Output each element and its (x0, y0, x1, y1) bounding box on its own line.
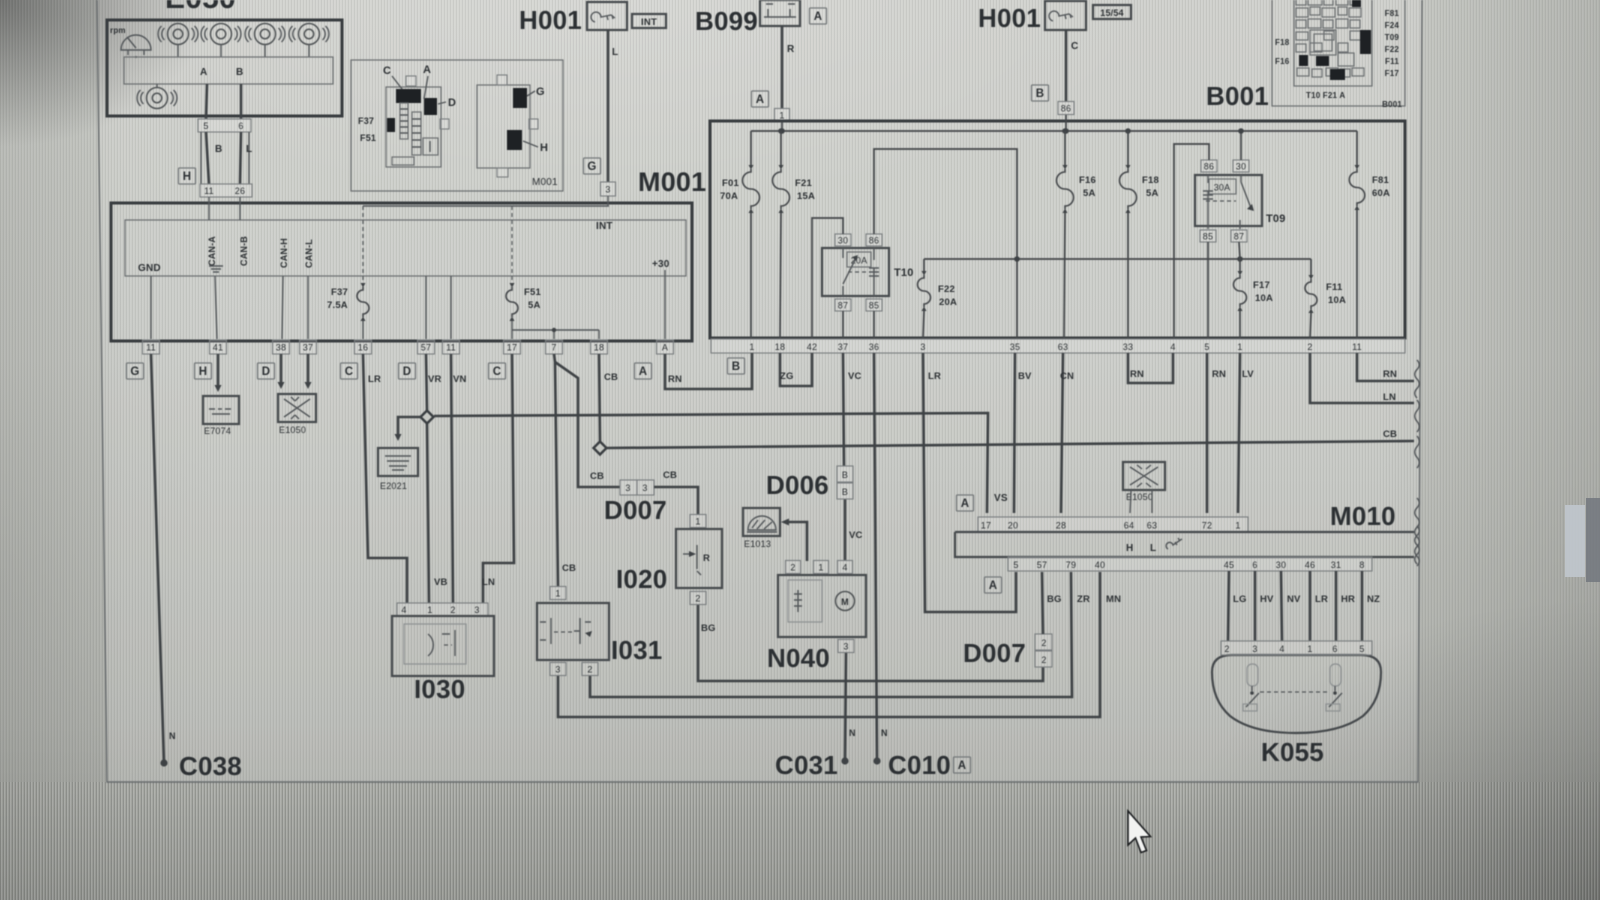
svg-text:26: 26 (235, 186, 245, 196)
switched supply rail (924, 258, 1311, 260)
inset left connector (386, 87, 441, 167)
M001 INT feed (363, 196, 609, 206)
wire CN (B001-63 to M010-28) (1061, 353, 1063, 513)
svg-text:87: 87 (838, 301, 848, 311)
relay T10 pin 85 (866, 299, 882, 311)
svg-text:CAN-A: CAN-A (207, 236, 217, 266)
wire LN (B001-2 to edge) (1310, 353, 1414, 403)
svg-text:RN: RN (1383, 369, 1397, 380)
sheet marker G (584, 158, 601, 174)
wire NV (M010 to K055) (1281, 571, 1282, 641)
svg-text:3: 3 (555, 665, 560, 675)
svg-text:CB: CB (604, 372, 618, 383)
sheet marker C under M001 (489, 363, 506, 379)
svg-text:79: 79 (1066, 560, 1076, 570)
svg-text:F01: F01 (722, 178, 739, 189)
svg-text:NZ: NZ (1367, 594, 1380, 605)
svg-text:3: 3 (843, 642, 848, 652)
E050 warning lamp icon 1 (158, 24, 198, 45)
svg-text:3: 3 (642, 483, 647, 493)
svg-text:37: 37 (838, 342, 848, 352)
svg-text:L: L (612, 47, 618, 58)
svg-text:3: 3 (605, 185, 610, 195)
H001-C feed stub (1065, 115, 1067, 131)
svg-text:B099: B099 (695, 6, 758, 36)
svg-text:A: A (423, 64, 431, 76)
I030 internals (428, 634, 433, 656)
svg-text:3: 3 (1252, 644, 1257, 654)
svg-text:4: 4 (842, 563, 847, 573)
inset box B001 fusebox layout (1272, 0, 1405, 109)
lamp unit K055 body (1212, 655, 1381, 733)
connector I020 pin 2 (690, 592, 706, 605)
svg-text:20: 20 (1008, 521, 1018, 531)
svg-text:CB: CB (562, 563, 576, 574)
svg-text:INT: INT (641, 17, 657, 28)
earth point E1050 (278, 394, 316, 422)
wire RN (M001-A to B001-1) (665, 353, 752, 389)
svg-text:B: B (842, 470, 848, 480)
relay T09 pin 30 (1233, 160, 1249, 172)
svg-text:VS: VS (994, 493, 1008, 504)
svg-text:86: 86 (1061, 104, 1071, 114)
svg-text:D: D (448, 97, 456, 109)
svg-text:5: 5 (1204, 342, 1209, 352)
svg-text:ZR: ZR (1077, 594, 1090, 605)
svg-text:MN: MN (1106, 594, 1121, 605)
svg-text:LR: LR (928, 371, 941, 382)
wire T09-85 to pin 5 (1207, 242, 1209, 338)
svg-text:6: 6 (238, 121, 243, 131)
svg-text:H001: H001 (978, 3, 1041, 33)
sheet marker H under M001 (195, 363, 212, 379)
M001 F51 output rail (512, 330, 599, 339)
svg-text:NV: NV (1287, 594, 1301, 605)
svg-text:GND: GND (138, 263, 161, 274)
svg-text:VN: VN (453, 374, 467, 385)
E050 warning lamp icon 4 (289, 24, 329, 45)
svg-text:T10 F21 A: T10 F21 A (1306, 91, 1345, 100)
svg-text:D007: D007 (604, 495, 667, 525)
svg-text:A: A (989, 580, 998, 592)
svg-text:HV: HV (1260, 594, 1274, 605)
svg-text:VB: VB (434, 577, 448, 588)
svg-text:63: 63 (1147, 521, 1157, 531)
wire VB (M001-57 to I030-1) (426, 354, 429, 603)
svg-text:E050: E050 (165, 0, 236, 15)
svg-text:M001: M001 (638, 167, 706, 197)
wire RN (B001-33 to 4) (1128, 353, 1173, 383)
wire L (E050-6 to M001-26) (240, 132, 241, 184)
inset tiny pin boxes (406, 76, 416, 86)
E050 warning lamp icon 2 (201, 24, 241, 45)
E050 rpm gauge icon (110, 26, 151, 55)
E050 pin row 5 6 (198, 119, 251, 132)
relay T10 pin 30 (835, 234, 851, 246)
E1050 stubs to M010 (1130, 490, 1152, 513)
svg-text:86: 86 (869, 236, 879, 246)
svg-text:R: R (787, 44, 795, 55)
svg-text:5: 5 (1013, 560, 1018, 570)
svg-text:2: 2 (587, 665, 592, 675)
sheet marker D under M001 (258, 363, 275, 379)
svg-text:H: H (1126, 543, 1133, 554)
svg-text:38: 38 (276, 343, 286, 353)
svg-text:2: 2 (450, 605, 455, 615)
svg-text:7.5A: 7.5A (327, 300, 348, 311)
wire L H001 to M001 pin 3 (607, 30, 610, 182)
wire M001-38 to E1050 (280, 354, 283, 384)
sheet marker H (179, 168, 196, 184)
fuse F17 10A (1239, 259, 1241, 271)
switch unit I031 box (537, 603, 609, 660)
svg-text:3: 3 (920, 342, 925, 352)
svg-text:17: 17 (981, 521, 991, 531)
svg-text:8: 8 (1359, 560, 1364, 570)
svg-text:11: 11 (146, 343, 156, 353)
svg-text:1: 1 (1235, 521, 1240, 531)
relay T09 box (1195, 175, 1262, 226)
svg-text:D: D (262, 366, 271, 378)
svg-text:VC: VC (848, 371, 862, 382)
svg-text:C031: C031 (775, 750, 838, 780)
wire B (E050-5 to M001-11) (206, 132, 209, 184)
wire MN (I031-3 to M010-40) (558, 572, 1100, 717)
svg-text:57: 57 (1037, 560, 1047, 570)
svg-text:D006: D006 (766, 470, 829, 500)
wire T09-86 to pin 4 (1174, 144, 1209, 338)
svg-text:CAN-L: CAN-L (304, 239, 314, 268)
svg-text:30: 30 (1236, 162, 1246, 172)
svg-text:4: 4 (401, 605, 406, 615)
svg-text:85: 85 (869, 301, 879, 311)
relay T10 pin 87 (835, 299, 851, 311)
svg-text:N: N (881, 728, 888, 738)
svg-text:1: 1 (555, 589, 560, 599)
svg-text:F18: F18 (1275, 38, 1290, 47)
sheet marker B (RN wire) (728, 358, 745, 374)
mouse cursor (1128, 811, 1151, 853)
wire RN (B001-5 to M010-72) (1206, 353, 1209, 513)
svg-text:G: G (536, 86, 545, 98)
svg-text:D: D (403, 366, 412, 378)
earth point E1050 (right) (1123, 462, 1165, 490)
M001 bottom pin boxes (143, 340, 674, 354)
svg-text:F17: F17 (1253, 280, 1270, 291)
svg-text:LV: LV (1242, 369, 1254, 380)
fuse F18 5A (1125, 128, 1131, 134)
svg-text:2: 2 (1224, 644, 1229, 654)
svg-text:H: H (199, 366, 208, 378)
svg-text:I031: I031 (611, 635, 662, 665)
wire N (N040-3 to C031) (845, 653, 846, 758)
svg-text:A: A (958, 760, 967, 772)
svg-text:57: 57 (421, 343, 431, 353)
svg-text:87: 87 (1234, 232, 1244, 242)
connector I030 pin strip (397, 603, 488, 616)
wire M001-41 to E7074 (217, 354, 220, 387)
svg-text:F81: F81 (1385, 9, 1400, 18)
wire R B099 to B001 pin 1 (781, 26, 784, 109)
inset box M001 connector faces (351, 60, 563, 191)
wire CB branch (M001-7 to D007) (555, 362, 620, 487)
wire HV (M010 to K055) (1254, 571, 1257, 641)
bus VS (node to M010-17) (434, 413, 988, 513)
svg-text:33: 33 (1123, 342, 1133, 352)
fuse F16 5A (1062, 128, 1068, 134)
svg-text:5A: 5A (528, 300, 541, 311)
svg-text:C: C (1071, 41, 1078, 52)
fuse F22 20A (923, 259, 925, 271)
M001 shield glyph (209, 266, 223, 272)
svg-text:F11: F11 (1326, 282, 1343, 293)
wire T10-85 to pin 36 (873, 311, 875, 338)
svg-text:F51: F51 (360, 133, 376, 143)
svg-text:CN: CN (1060, 371, 1074, 382)
N040 resistor element (788, 580, 822, 622)
M001 pin row 11 26 (200, 184, 252, 197)
wire CB (M001-7 to I031-1) (554, 354, 558, 586)
svg-text:72: 72 (1202, 521, 1212, 531)
svg-text:F24: F24 (1385, 21, 1400, 30)
sheet marker A (C010) (954, 757, 971, 773)
wire E050 B to pin 6 (240, 84, 243, 119)
wire T09-30 to rail (1240, 131, 1242, 160)
diagram sheet frame (97, 0, 1422, 782)
junction box B001 outline (710, 121, 1405, 338)
connector I020 pin 1 (690, 515, 706, 528)
svg-text:T09: T09 (1385, 33, 1400, 42)
K055 lamp element right (1330, 664, 1341, 686)
svg-text:63: 63 (1058, 342, 1068, 352)
svg-text:B001: B001 (1382, 100, 1402, 109)
svg-text:2: 2 (1041, 655, 1046, 665)
E050 lamp stub (156, 84, 158, 87)
B099 feed stub (781, 122, 783, 131)
ground module E7074 (203, 396, 239, 424)
wire BG (I020-2 to D007-2) (698, 605, 1043, 681)
svg-text:B: B (1036, 88, 1045, 100)
svg-text:1: 1 (1237, 342, 1242, 352)
sheet marker A (B099 wire) (752, 91, 769, 107)
svg-text:2: 2 (790, 563, 795, 573)
B001 bottom pin numbers (749, 342, 1361, 352)
svg-text:B: B (215, 144, 222, 155)
wire BG (D007-2 to M010-57) (1042, 572, 1043, 634)
svg-text:F22: F22 (1385, 45, 1400, 54)
svg-text:5: 5 (1359, 644, 1364, 654)
wire M001-37 to E1050 (307, 354, 310, 384)
relay T10 pin 86 (866, 234, 882, 246)
H001 icon box 2 (1045, 1, 1086, 30)
svg-text:K055: K055 (1261, 737, 1324, 767)
svg-text:B: B (732, 361, 741, 373)
M001 internal dashed drops (362, 206, 364, 283)
ECU M010 box (955, 532, 1414, 557)
relay T09 pin 87 (1231, 230, 1247, 242)
svg-text:R: R (703, 553, 710, 564)
svg-text:F37: F37 (358, 116, 374, 126)
sheet marker A (top) (810, 8, 827, 24)
svg-text:N040: N040 (767, 643, 830, 673)
svg-text:BV: BV (1018, 371, 1032, 382)
inset right connector (477, 85, 530, 168)
E050 warning lamp icon 3 (245, 24, 285, 45)
svg-text:F22: F22 (938, 284, 955, 295)
svg-text:LR: LR (368, 374, 381, 385)
I020 internals (696, 545, 698, 569)
labels K055 wires (1233, 594, 1380, 605)
svg-text:11: 11 (1352, 342, 1362, 352)
fuse F37 7.5A (357, 287, 369, 317)
component E050 body box (107, 20, 342, 116)
svg-text:C: C (345, 366, 354, 378)
svg-text:C038: C038 (179, 751, 242, 781)
ECU M001 outline (111, 203, 692, 341)
fuse F01 70A (750, 131, 752, 165)
wire NZ (M010 to K055) (1361, 571, 1364, 641)
E050 internal connector bar (124, 57, 333, 84)
ECU M010 top pin strip (978, 517, 1248, 532)
svg-text:rpm: rpm (110, 26, 126, 35)
svg-text:I030: I030 (414, 674, 465, 704)
svg-text:1: 1 (818, 563, 823, 573)
svg-text:85: 85 (1203, 232, 1213, 242)
svg-text:N: N (849, 728, 856, 738)
svg-text:LG: LG (1233, 594, 1247, 605)
svg-text:64: 64 (1124, 521, 1134, 531)
svg-text:60A: 60A (1372, 188, 1390, 199)
svg-text:C: C (493, 366, 502, 378)
gauge icon E1013 (743, 508, 780, 536)
wire LN (M001-17 to I030-3) (483, 354, 514, 603)
connector pair outline (201, 132, 249, 184)
tag INT box (632, 14, 666, 28)
sheet marker D under M001 (399, 363, 416, 379)
svg-text:46: 46 (1305, 560, 1315, 570)
svg-text:+30: +30 (652, 259, 670, 270)
svg-text:A: A (814, 11, 823, 23)
svg-text:E1050: E1050 (279, 425, 306, 435)
svg-text:35: 35 (1010, 342, 1020, 352)
K055 pin strip (1221, 641, 1372, 655)
wire M001-11 to I030-2 (451, 354, 453, 603)
svg-text:5A: 5A (1146, 188, 1159, 199)
svg-text:1: 1 (695, 517, 700, 527)
svg-text:18: 18 (594, 343, 604, 353)
svg-text:3: 3 (474, 605, 479, 615)
svg-text:37: 37 (303, 343, 313, 353)
svg-text:BG: BG (701, 623, 716, 634)
svg-text:A: A (756, 94, 765, 106)
B001 top pin 86 box (1058, 102, 1074, 115)
sheet marker B (1032, 85, 1049, 101)
svg-text:CAN-H: CAN-H (279, 238, 289, 268)
svg-text:A: A (662, 343, 668, 353)
fuse F51 5A (506, 287, 518, 317)
svg-text:E1013: E1013 (744, 539, 771, 549)
inline connector D006 pins (837, 466, 853, 482)
svg-text:1: 1 (427, 605, 432, 615)
svg-text:A: A (961, 498, 970, 510)
bus CB to sheet edge (607, 441, 1414, 448)
connector I031 pin 3 (550, 663, 566, 676)
fuse F21 15A (778, 128, 784, 134)
svg-text:A: A (200, 67, 207, 78)
wire B001-42 to T10-30 (812, 218, 843, 338)
wire LV (B001-1 to M010-1) (1238, 353, 1240, 513)
svg-text:4: 4 (1170, 342, 1175, 352)
svg-text:N: N (169, 731, 176, 741)
E050 icon stubs (136, 45, 309, 58)
svg-text:6: 6 (1252, 560, 1257, 570)
svg-text:30A: 30A (1214, 183, 1231, 193)
svg-text:36: 36 (869, 342, 879, 352)
connector I031 pin 2 (582, 663, 598, 676)
branch to E2021 (398, 417, 420, 434)
svg-text:30: 30 (1276, 560, 1286, 570)
svg-text:F21: F21 (795, 178, 812, 189)
svg-text:40: 40 (1095, 560, 1105, 570)
N040 motor (836, 592, 855, 611)
wire CB (M001-18 to frame) (599, 354, 600, 441)
wire HR (M010 to K055) (1335, 571, 1338, 641)
svg-text:F37: F37 (331, 287, 348, 298)
svg-text:G: G (587, 161, 596, 173)
wire T10-86 to node BV (874, 149, 1017, 338)
svg-text:M: M (841, 597, 849, 607)
svg-text:42: 42 (807, 342, 817, 352)
wire (M001-16 to I030-4) (363, 354, 407, 603)
wire C H001 to B001 pin 86 (1065, 30, 1068, 102)
sheet marker C under M001 (341, 363, 358, 379)
svg-text:11: 11 (204, 186, 214, 196)
wire BV (B001-35 to M010-20) (1014, 353, 1015, 513)
svg-text:F18: F18 (1142, 175, 1159, 186)
svg-text:B001: B001 (1206, 81, 1269, 111)
svg-text:4: 4 (1279, 644, 1284, 654)
svg-text:RN: RN (668, 374, 682, 385)
svg-text:C: C (383, 65, 391, 77)
svg-text:D007: D007 (963, 638, 1026, 668)
svg-text:18: 18 (775, 342, 785, 352)
svg-text:70A: 70A (720, 191, 738, 202)
tag 15/54 box (1093, 5, 1131, 19)
B001 top pin 1 box (775, 109, 790, 122)
svg-text:28: 28 (1056, 521, 1066, 531)
svg-text:1: 1 (779, 111, 784, 121)
inline connector D007 pins 2-2 (1035, 634, 1052, 650)
wire CB (D007 to I020-1) (654, 487, 698, 514)
svg-text:17: 17 (507, 343, 517, 353)
svg-text:1: 1 (749, 342, 754, 352)
wire ZR (I031-2 to M010-79) (590, 572, 1072, 697)
svg-text:F51: F51 (524, 287, 541, 298)
svg-text:11: 11 (446, 343, 456, 353)
svg-text:H: H (540, 142, 548, 154)
earth point E2021 (378, 448, 418, 476)
switch unit I020 box (676, 529, 722, 588)
svg-text:L: L (1150, 543, 1156, 554)
svg-text:F11: F11 (1385, 57, 1399, 66)
I031 internals (540, 618, 551, 644)
svg-text:INT: INT (596, 221, 613, 232)
svg-text:2: 2 (1307, 342, 1312, 352)
svg-text:T09: T09 (1266, 213, 1286, 225)
svg-text:BG: BG (1047, 594, 1062, 605)
svg-text:10A: 10A (1328, 295, 1346, 306)
svg-text:E2021: E2021 (380, 481, 407, 491)
